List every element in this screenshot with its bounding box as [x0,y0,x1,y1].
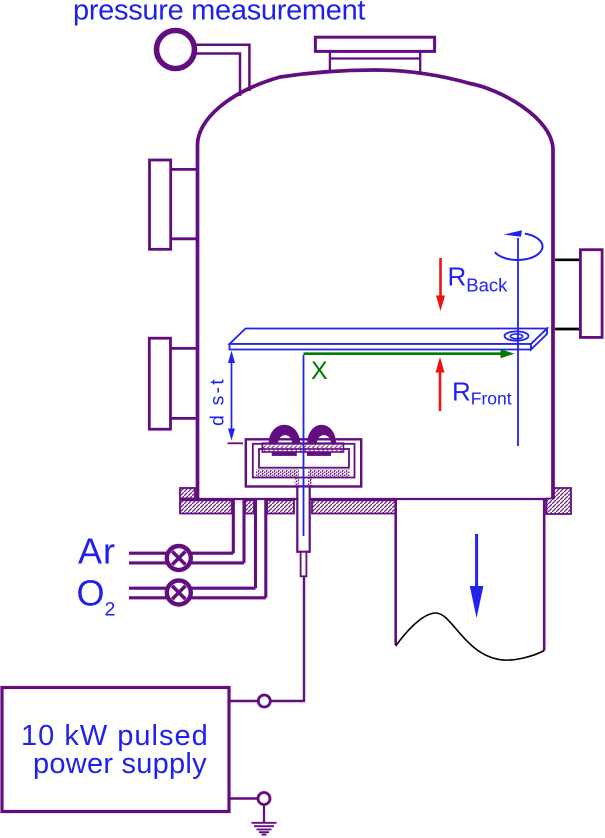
bottom flange top line [180,498,547,500]
ground node circle [258,793,270,805]
right flange connectors (black) [555,260,580,329]
R_Back arrow (red) [439,258,442,298]
left lower flange [149,338,170,429]
power supply box [2,688,229,812]
rotation arc [495,234,543,260]
left upper flange [150,160,171,249]
ground symbol bars [252,823,277,835]
magnetron stem narrow tube [301,552,307,577]
power node circle [258,695,270,707]
speckle bar right [309,470,351,478]
X axis arrow (green) [304,352,505,355]
magnet bar right [307,452,331,456]
bottom flange hatched band segment 1 [180,500,232,513]
pump arrow (blue) [475,534,478,588]
right flange [580,250,602,338]
left lower flange connectors [171,348,198,418]
bottom flange left cap [180,488,195,499]
svg-text:pressure measurement: pressure measurement [73,0,365,27]
svg-text:Ar: Ar [78,531,116,572]
bottom flange right cap (L shape) [547,488,572,514]
O2 gas pipe [129,499,266,598]
rotation axis (blue) [517,238,519,446]
ground wire from box [229,797,258,799]
bottom flange hatched band segment 4 [312,500,396,513]
ground stem [263,805,265,823]
svg-text:power supply: power supply [33,748,207,780]
power wire vertical [271,577,305,701]
bottom flange hatched band segment 2 [245,500,254,513]
svg-text:d s-t: d s-t [207,377,229,426]
magnetron stem [297,487,309,552]
speckle bar left [256,470,298,478]
magnetron axis line (blue) [303,355,305,536]
racetrack arc left [269,425,301,444]
plate hole inner oval [510,334,522,339]
Ar valve [167,546,191,570]
left upper flange connectors [171,169,198,238]
plate hole outer oval [505,331,529,340]
pump duct walls [396,499,545,651]
substrate plate right end face [531,329,547,350]
power wire from box [229,700,258,702]
stem side speckle strip left [295,470,299,487]
chamber vessel outline [198,70,554,499]
magnet bar left [272,452,297,456]
rotation arrowhead [504,230,523,236]
d s-t dimension line (blue) [231,356,233,436]
racetrack arc right [307,425,336,444]
bottom flange hatched band segment 3 [267,500,294,513]
pump duct wavy bottom (black) [396,613,545,660]
magnetron inner box [259,449,349,468]
magnetron outer box [246,439,361,486]
substrate plate top face [230,329,548,345]
O2 valve [167,581,191,605]
svg-text:X: X [311,357,328,385]
stem side speckle strip right [308,470,312,487]
top flange [315,37,434,51]
magnetron mid box [253,444,355,478]
Ar gas pipe [129,499,244,563]
target (hatched) [262,443,343,452]
top flange legs [330,51,420,72]
R_Front arrow (red) [439,369,442,411]
pressure gauge pipe [192,44,251,96]
substrate plate front face [230,344,532,350]
pressure gauge [157,31,195,69]
